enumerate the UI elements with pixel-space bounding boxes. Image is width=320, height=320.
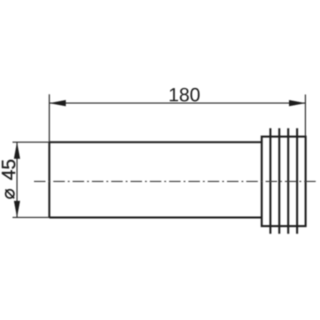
label 45 digit 4: [2, 170, 15, 180]
label 45 digit 5: [2, 160, 15, 169]
extension line right: [304, 95, 306, 137]
arrow right: [289, 100, 306, 106]
extension line left: [48, 94, 50, 142]
gasket fin 4: [296, 128, 298, 233]
dimension line dia 45: [16, 142, 18, 217]
dimension line 180: [49, 102, 305, 104]
pipe body: [49, 142, 261, 217]
gasket fin 2: [278, 128, 280, 233]
arrow left: [49, 100, 66, 106]
gasket fin 3: [287, 128, 289, 233]
label 180 digit 1: [170, 88, 178, 101]
arrow down: [14, 201, 20, 218]
diameter symbol: [5, 190, 14, 199]
extension line bottom: [13, 216, 50, 218]
arrow up: [14, 142, 20, 159]
label 180 digit 0: [190, 88, 199, 102]
gasket fin 1: [269, 128, 271, 233]
extension line top: [13, 141, 50, 143]
gasket rect: [262, 137, 306, 227]
center line: [34, 180, 318, 182]
label 180 digit 8: [180, 88, 189, 102]
